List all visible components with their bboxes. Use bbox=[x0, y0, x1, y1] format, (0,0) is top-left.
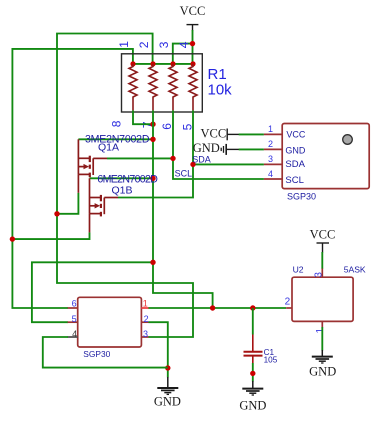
pin 3 stub bbox=[264, 163, 282, 165]
svg-text:6: 6 bbox=[160, 123, 174, 130]
wire SGP30 pin4 to GND bus bbox=[43, 337, 168, 368]
svg-text:2: 2 bbox=[268, 139, 273, 149]
IC U2 bbox=[292, 277, 353, 321]
pin 2 stub bbox=[264, 148, 282, 150]
svg-text:3: 3 bbox=[157, 41, 171, 48]
ground GND (at SGP30 pin2) bbox=[221, 144, 239, 155]
svg-text:R1: R1 bbox=[208, 66, 227, 83]
svg-text:SCL: SCL bbox=[175, 168, 193, 178]
ground symbol (bottom middle) bbox=[157, 377, 178, 394]
wire junction to R1 pin3 bbox=[173, 44, 193, 64]
svg-text:1: 1 bbox=[117, 41, 131, 48]
wire R1 internal common rail bbox=[133, 63, 193, 65]
svg-text:U2: U2 bbox=[293, 264, 304, 274]
svg-text:1: 1 bbox=[143, 298, 148, 308]
wire net B : R1 pin1 to Q1B source to SGP30(bottom) pin6 bbox=[12, 49, 132, 308]
node VCC junction bbox=[190, 41, 195, 46]
svg-text:4: 4 bbox=[268, 169, 273, 179]
wire SGP30 pin2 to GND bbox=[149, 322, 168, 377]
power symbol VCC (at SGP30 pin1) bbox=[227, 129, 239, 141]
capacitor C1 bbox=[252, 308, 254, 335]
resistor R1 element b bbox=[149, 64, 157, 111]
pin 2 stub (left) bbox=[286, 307, 292, 309]
node bus/C1 junction bbox=[250, 305, 255, 310]
svg-text:10k: 10k bbox=[208, 82, 233, 99]
node rail dot 2 bbox=[150, 61, 155, 66]
svg-text:2: 2 bbox=[285, 297, 291, 308]
wire net A : R1 pin2 to Q1A source to SGP30(bottom) pin3 bbox=[57, 34, 193, 338]
node rail dot 3 bbox=[170, 61, 175, 66]
resistor R1 element d bbox=[189, 64, 197, 111]
wire VCC to SGP30 pin1 bbox=[239, 133, 264, 135]
node Q1A source junction bbox=[54, 211, 59, 216]
node SDA junction bbox=[190, 162, 195, 167]
svg-text:SDA: SDA bbox=[192, 155, 211, 165]
svg-text:4: 4 bbox=[72, 329, 77, 339]
ground symbol (under C1) bbox=[242, 381, 263, 395]
svg-text:SGP30: SGP30 bbox=[83, 349, 110, 359]
resistor network R1 box bbox=[122, 54, 203, 112]
node Q1B source junction bbox=[10, 236, 15, 241]
wire VCC to junction bbox=[192, 30, 194, 44]
pin 1 stub bbox=[264, 133, 282, 135]
node Q1A drain junction bbox=[150, 137, 155, 142]
svg-text:GND: GND bbox=[154, 394, 181, 408]
wire Q1A source to net A bbox=[57, 193, 78, 214]
node Q1A gate junction bbox=[170, 156, 175, 161]
svg-text:5: 5 bbox=[72, 314, 77, 324]
pin 1 stub (bottom) bbox=[321, 321, 323, 327]
svg-text:8: 8 bbox=[110, 120, 124, 127]
resistor R1 element c bbox=[169, 64, 177, 111]
svg-text:VCC: VCC bbox=[180, 4, 206, 18]
wire Q1B drain to net S1 bbox=[90, 177, 154, 179]
power symbol VCC (at U2) bbox=[317, 243, 330, 253]
svg-text:105: 105 bbox=[264, 356, 278, 365]
wire C1 to GND bbox=[252, 363, 254, 382]
pin 3 stub (top) bbox=[321, 269, 323, 278]
wire Q1A drain to net S1 bbox=[78, 138, 153, 140]
svg-text:SDA: SDA bbox=[285, 159, 305, 170]
node S1 branch junction bbox=[150, 260, 155, 265]
ground symbol (under U2) bbox=[312, 350, 333, 363]
wire GND to SGP30 pin2 bbox=[239, 148, 264, 150]
svg-text:VCC: VCC bbox=[286, 130, 306, 140]
node rail dot 1 bbox=[130, 61, 135, 66]
node C1-GND junction bbox=[250, 371, 255, 376]
svg-text:3: 3 bbox=[268, 154, 273, 164]
svg-text:Q1B: Q1B bbox=[112, 185, 133, 197]
wire U2 pin1 to GND bbox=[321, 327, 323, 351]
pin 6 stub bbox=[68, 307, 78, 309]
svg-text:VCC: VCC bbox=[200, 126, 226, 140]
svg-text:VCC: VCC bbox=[310, 228, 336, 242]
svg-text:3: 3 bbox=[143, 329, 148, 339]
svg-text:1: 1 bbox=[315, 328, 326, 334]
svg-text:GND: GND bbox=[239, 399, 266, 413]
sensor U? SGP30 (right) bbox=[282, 124, 369, 189]
svg-text:2: 2 bbox=[137, 41, 151, 48]
wire net S1 : R1 pin7 down to staircase to bottom bus bbox=[153, 110, 213, 308]
pin 1 stub bbox=[141, 307, 149, 309]
wire Q1B source to net B bbox=[12, 232, 89, 239]
svg-text:Q1A: Q1A bbox=[98, 142, 119, 154]
pin 5 stub bbox=[68, 321, 78, 323]
sensor U? SGP30 (bottom) bbox=[78, 297, 142, 347]
svg-text:5ASK: 5ASK bbox=[344, 264, 366, 274]
svg-text:GND: GND bbox=[193, 141, 220, 155]
pin-1 marker circle bbox=[343, 135, 353, 145]
wire SDA down to Q1B gate bbox=[118, 164, 193, 197]
resistor R1 element a bbox=[129, 64, 137, 111]
svg-text:1: 1 bbox=[268, 124, 273, 134]
transistor Q1A bbox=[78, 139, 107, 193]
wire junction to R1 pin4 bbox=[192, 44, 194, 64]
node Q1B drain junction bbox=[150, 176, 155, 181]
wire Q1A gate to net SCL bbox=[107, 157, 173, 159]
pin 4 stub bbox=[264, 178, 282, 180]
pin 3 stub bbox=[141, 336, 148, 338]
wire bottom bus SGP30 pin1 to U2 pin2 bbox=[149, 307, 287, 309]
svg-text:SGP30: SGP30 bbox=[287, 192, 316, 202]
wire net SDA : R1 pin5 down, right to SGP30 pin3 bbox=[193, 110, 264, 164]
node rail dot 4 bbox=[190, 61, 195, 66]
node bus/staircase junction bbox=[210, 305, 215, 310]
node pin8/pin7 junction bbox=[150, 122, 155, 127]
power symbol VCC (top) bbox=[187, 25, 199, 31]
wire net S1 left branch to SGP30(bottom) pin5 bbox=[32, 262, 153, 322]
node pin2-GND junction bbox=[165, 365, 170, 370]
svg-text:4: 4 bbox=[177, 41, 191, 48]
svg-text:3: 3 bbox=[314, 272, 325, 278]
transistor Q1B bbox=[90, 178, 119, 232]
svg-text:GND: GND bbox=[285, 146, 306, 156]
svg-text:SCL: SCL bbox=[285, 175, 303, 186]
wire net SCL : R1 pin6 down and right to SGP30 pin4 bbox=[173, 110, 264, 179]
pin 2 stub bbox=[141, 321, 148, 323]
wire R1 pin8 to pin7 bbox=[133, 110, 153, 124]
svg-text:2: 2 bbox=[144, 314, 149, 324]
pin 4 stub bbox=[68, 336, 78, 338]
svg-text:6: 6 bbox=[72, 298, 77, 308]
svg-text:GND: GND bbox=[309, 365, 336, 379]
wire VCC to U2 pin3 bbox=[321, 252, 323, 269]
